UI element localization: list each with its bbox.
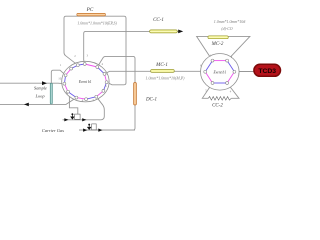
svg-text:Event b1: Event b1 <box>78 80 92 84</box>
svg-text:CC-1: CC-1 <box>153 18 164 23</box>
resistor CC-2 <box>208 97 231 101</box>
arrow sample inlet <box>42 81 47 85</box>
wire vent line <box>63 97 105 120</box>
V1 ring chords <box>64 64 106 99</box>
detector TCD3 <box>254 64 281 76</box>
wire carrier gas <box>79 129 135 131</box>
svg-text:1.0mm*1.0mm*10#: 1.0mm*1.0mm*10# <box>214 19 247 24</box>
arrow vent 1 <box>64 118 68 121</box>
arrow vent 2 <box>82 118 86 121</box>
wire MC-1 <box>105 71 205 74</box>
funnel CC-2 <box>202 83 212 98</box>
needle valve vent <box>70 117 74 120</box>
column PC <box>77 13 106 16</box>
arrow carrier 1 <box>83 129 87 132</box>
svg-text:(d)-CO: (d)-CO <box>221 27 232 31</box>
svg-text:Carrier Gas: Carrier Gas <box>42 128 64 133</box>
wire DC-1 branch <box>97 56 135 82</box>
sample loop tube <box>50 83 52 104</box>
V1 port numbers <box>58 53 108 102</box>
valve V1 <box>58 53 109 102</box>
arrow carrier 2 <box>98 129 102 132</box>
svg-text:Loop: Loop <box>34 93 45 98</box>
valve V2 <box>200 54 240 94</box>
arrow sample outlet <box>24 103 29 107</box>
svg-text:PC: PC <box>86 7 94 13</box>
needle valve carrier <box>87 127 92 130</box>
svg-text:CC-2: CC-2 <box>212 103 223 108</box>
svg-text:MC-2: MC-2 <box>211 42 224 47</box>
svg-text:TCD3: TCD3 <box>258 68 276 75</box>
wire TCD <box>234 71 253 73</box>
svg-text:Sample: Sample <box>34 86 47 91</box>
column DC-1 <box>134 83 137 106</box>
V2 ring chords <box>205 61 234 83</box>
wire PC loop <box>64 16 126 85</box>
wire sample loop top <box>51 70 65 83</box>
svg-text:10: 10 <box>58 76 62 80</box>
wire port9 to valve glyph <box>68 92 78 114</box>
wire sample inlet <box>0 82 64 85</box>
arrow CC-1 <box>178 30 183 34</box>
svg-text:MC-1: MC-1 <box>155 63 168 68</box>
V2 ports <box>204 59 236 84</box>
V2 port numbers <box>200 54 240 94</box>
V1 ports <box>63 63 108 101</box>
wire CC-1 <box>84 31 179 64</box>
svg-text:Event b1: Event b1 <box>212 70 226 74</box>
column MC-2 <box>208 36 228 39</box>
column CC-1 <box>150 30 178 33</box>
wire DC-1 to carrier <box>79 105 135 130</box>
funnel MC-2 <box>197 36 250 60</box>
wire sample outlet <box>0 98 76 105</box>
column MC-1 <box>151 70 175 73</box>
svg-text:DC-1: DC-1 <box>145 98 157 103</box>
